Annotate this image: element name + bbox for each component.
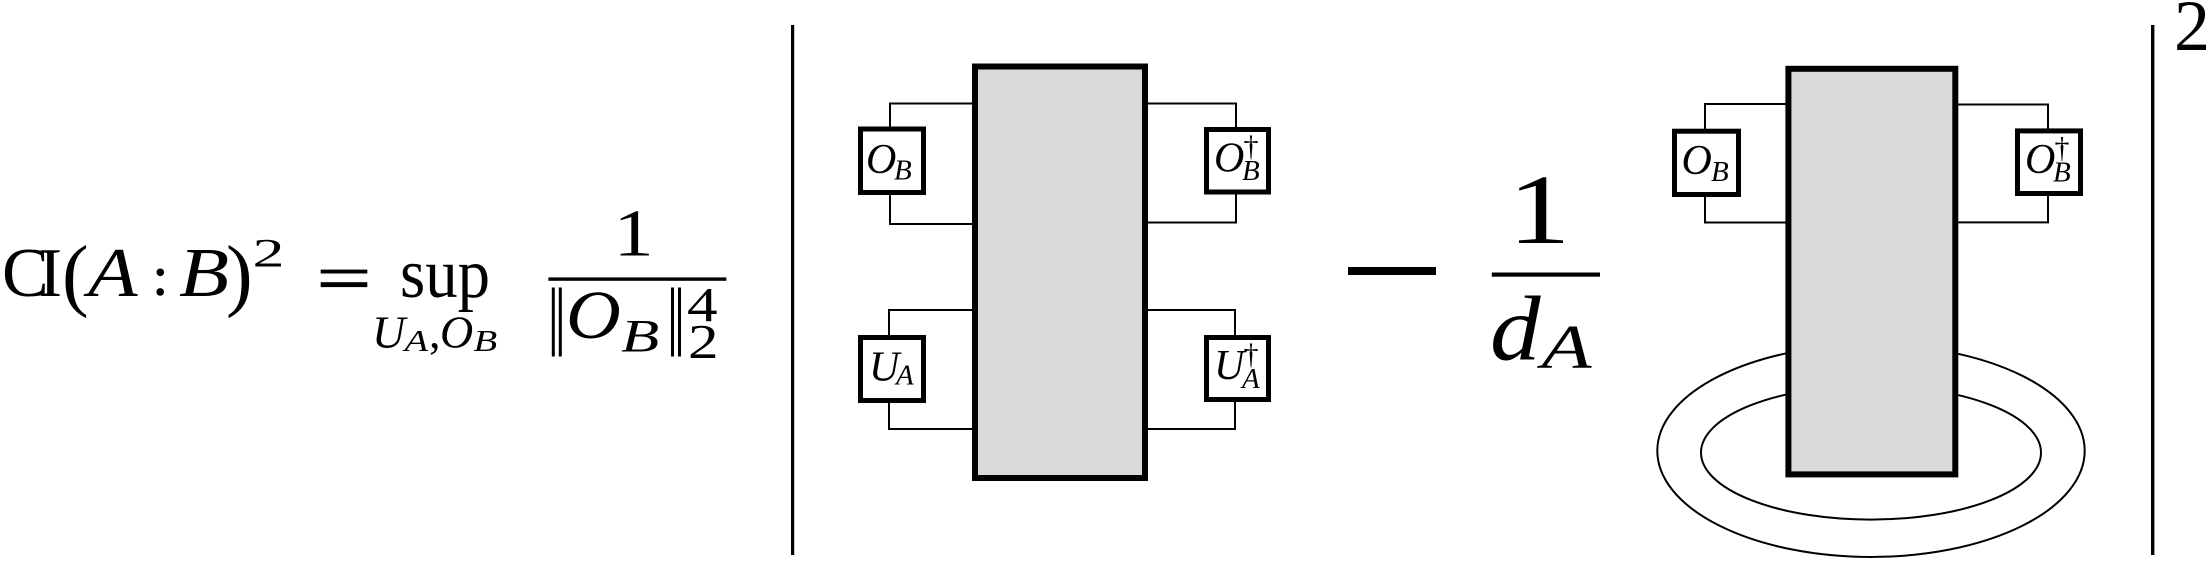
svg-text:B: B xyxy=(621,310,659,362)
right absolute value bar xyxy=(2151,25,2154,555)
wire O_B-dagger top xyxy=(1147,104,1236,129)
fraction 2 bar xyxy=(1492,273,1600,277)
svg-text:A: A xyxy=(894,360,914,392)
box O_B xyxy=(861,129,924,193)
wire O_B2 top xyxy=(1705,104,1786,130)
minus sign xyxy=(1348,267,1436,275)
svg-text:A: A xyxy=(402,324,429,358)
svg-text:2: 2 xyxy=(253,231,285,276)
svg-text:d: d xyxy=(1490,278,1541,380)
left absolute value bar xyxy=(791,25,794,555)
svg-text:B: B xyxy=(2053,157,2071,189)
wire U_A top xyxy=(889,310,973,336)
svg-text:(: ( xyxy=(62,231,89,319)
trace loop inner ellipse xyxy=(1701,386,2041,520)
box O_B2-dagger xyxy=(2018,131,2081,194)
wire U_A bottom xyxy=(889,402,973,429)
svg-text:O: O xyxy=(1682,138,1712,184)
svg-text:CI: CI xyxy=(2,235,62,312)
tensor block 1 xyxy=(975,67,1145,479)
wire O_B-dagger bottom xyxy=(1147,193,1236,223)
label CI(A:B)^2 xyxy=(2,231,285,319)
svg-text:O: O xyxy=(566,276,621,353)
wire U_A-dagger bottom xyxy=(1147,401,1235,429)
svg-text:A: A xyxy=(1537,312,1592,382)
svg-text:O: O xyxy=(866,137,896,183)
svg-text:B: B xyxy=(1242,155,1260,187)
wire O_B2 bottom xyxy=(1705,196,1786,223)
fraction 1 denominator norm O_B norm 4 2 xyxy=(552,276,719,368)
svg-text:O: O xyxy=(1214,135,1244,181)
sup operator xyxy=(400,236,490,313)
wire O_B bottom xyxy=(890,194,973,224)
wire O_B2-dagger top xyxy=(1957,105,2048,131)
svg-text:1: 1 xyxy=(614,197,654,271)
wire O_B top xyxy=(890,104,973,128)
svg-text:2: 2 xyxy=(688,315,719,369)
box U_A-dagger xyxy=(1207,338,1269,400)
svg-text:U: U xyxy=(372,307,408,358)
sup subscript U_A,O_B xyxy=(372,307,497,358)
box O_B-dagger xyxy=(1207,130,1269,193)
trace loop outer ellipse xyxy=(1657,345,2084,557)
svg-text:B: B xyxy=(474,324,498,358)
svg-text:O: O xyxy=(2025,137,2055,183)
box U_A xyxy=(861,338,924,401)
svg-text:1: 1 xyxy=(1508,154,1570,264)
fraction 2 denominator d_A xyxy=(1490,278,1592,382)
svg-text:B: B xyxy=(1711,156,1729,188)
svg-text:sup: sup xyxy=(400,236,490,313)
svg-text:): ) xyxy=(226,231,253,319)
svg-text:B: B xyxy=(894,155,912,187)
svg-text:2: 2 xyxy=(2174,0,2209,66)
box O_B2 xyxy=(1675,131,1739,194)
tensor block 2 xyxy=(1788,69,1955,475)
svg-text:O: O xyxy=(440,307,473,358)
fraction 1 numerator 1 xyxy=(614,197,654,271)
wire O_B2-dagger bottom xyxy=(1957,195,2048,222)
svg-text:B: B xyxy=(179,234,229,311)
svg-text:A: A xyxy=(83,234,139,312)
wire U_A-dagger top xyxy=(1147,310,1235,336)
fraction 2 numerator 1 xyxy=(1508,154,1570,264)
equals sign xyxy=(321,270,368,288)
svg-text:A: A xyxy=(1240,363,1260,395)
fraction 1 bar xyxy=(548,277,726,280)
svg-text:,: , xyxy=(429,307,441,358)
